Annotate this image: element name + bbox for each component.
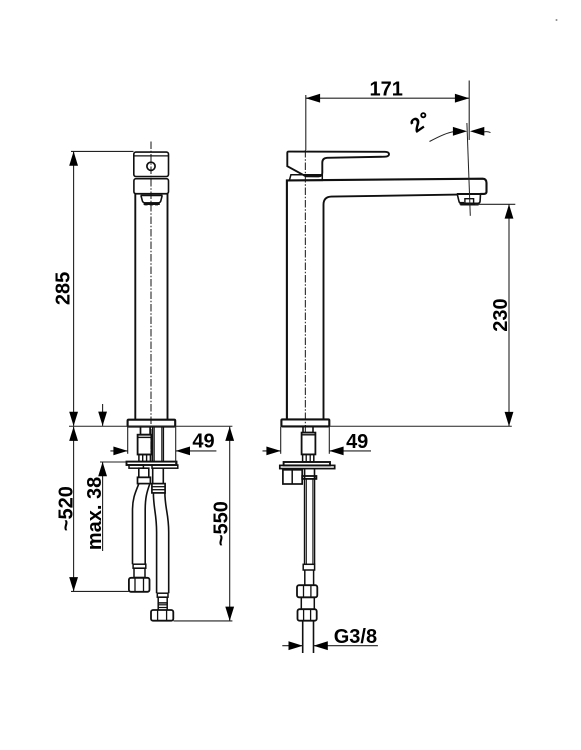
svg-text:~520: ~520 <box>55 486 77 531</box>
svg-text:G3/8: G3/8 <box>334 626 377 648</box>
svg-text:~550: ~550 <box>210 501 232 546</box>
svg-text:49: 49 <box>346 431 368 453</box>
svg-text:max. 38: max. 38 <box>84 477 106 550</box>
svg-text:49: 49 <box>192 430 214 452</box>
svg-text:171: 171 <box>370 78 403 100</box>
svg-text:230: 230 <box>490 298 512 331</box>
svg-text:285: 285 <box>53 272 75 305</box>
